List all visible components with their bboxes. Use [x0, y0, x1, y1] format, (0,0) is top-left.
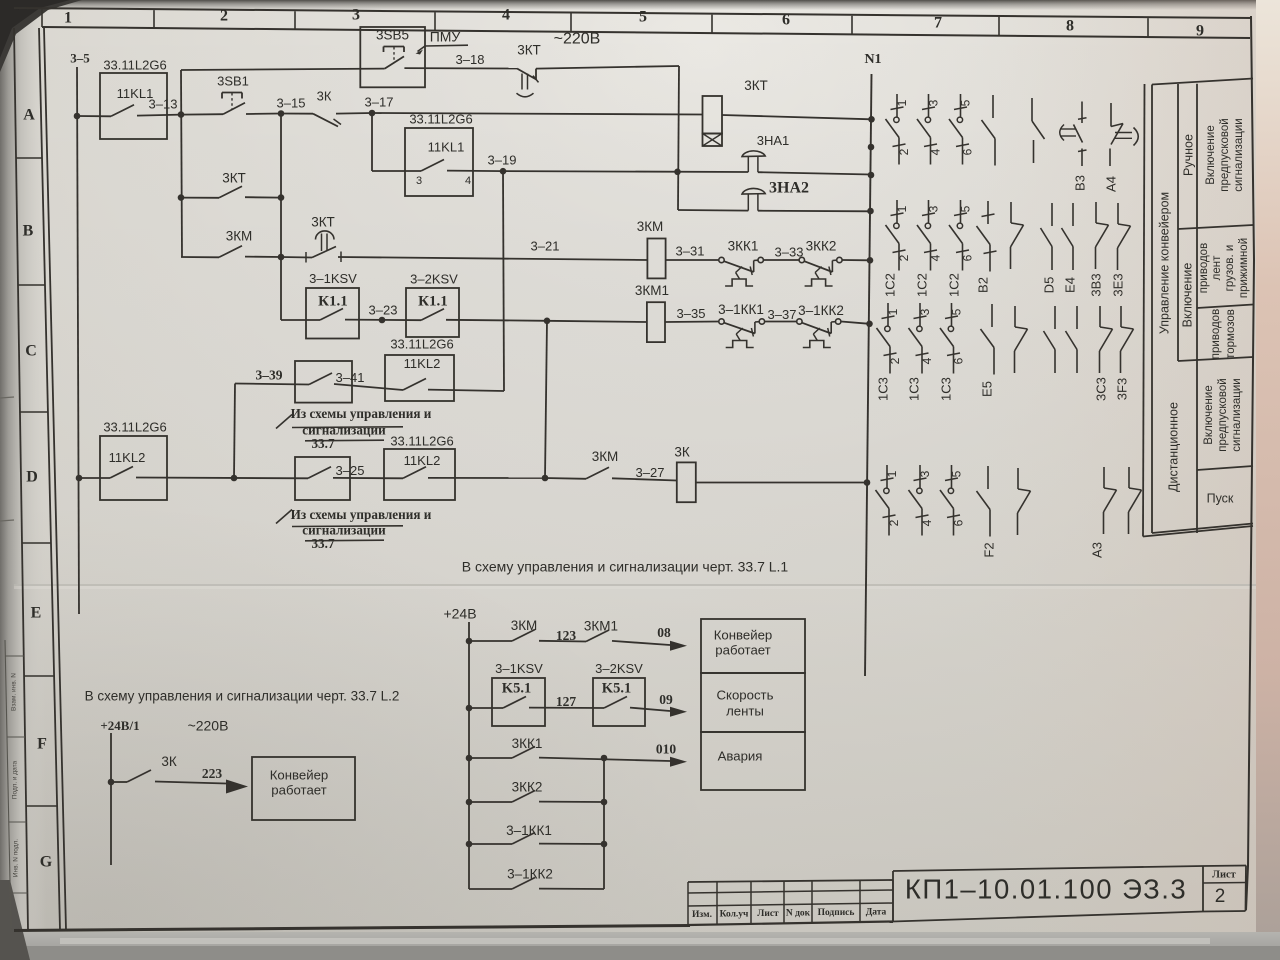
svg-text:B2: B2 [975, 277, 990, 293]
svg-text:4: 4 [929, 254, 943, 261]
svg-text:Управление конвейером: Управление конвейером [1157, 192, 1171, 334]
svg-text:3–2KSV: 3–2KSV [595, 661, 643, 676]
svg-text:6: 6 [952, 519, 966, 526]
svg-text:Инв. N подл.: Инв. N подл. [13, 839, 20, 877]
svg-text:3–27: 3–27 [636, 465, 665, 480]
svg-text:КП1–10.01.100 ЭЗ.3: КП1–10.01.100 ЭЗ.3 [905, 873, 1187, 904]
svg-text:6: 6 [782, 12, 790, 29]
svg-text:3–2KSV: 3–2KSV [410, 271, 458, 286]
svg-text:Изм.: Изм. [692, 910, 712, 920]
svg-text:Пуск: Пуск [1207, 491, 1234, 505]
svg-text:127: 127 [556, 694, 577, 709]
svg-text:1C3: 1C3 [875, 377, 890, 401]
svg-text:3КК2: 3КК2 [512, 780, 543, 795]
svg-text:3КМ1: 3КМ1 [635, 283, 669, 298]
svg-text:3: 3 [918, 470, 932, 477]
svg-text:3–19: 3–19 [488, 152, 517, 167]
svg-text:5: 5 [950, 308, 964, 315]
svg-text:Из схемы управления и: Из схемы управления и [291, 406, 432, 421]
svg-text:B: B [23, 223, 34, 240]
svg-text:Включение: Включение [1180, 263, 1194, 328]
svg-text:08: 08 [657, 625, 671, 640]
svg-text:3КК2: 3КК2 [806, 239, 837, 254]
svg-text:A4: A4 [1103, 176, 1118, 192]
svg-text:Включение: Включение [1203, 385, 1215, 444]
svg-text:K5.1: K5.1 [602, 680, 631, 696]
svg-text:D: D [26, 469, 38, 486]
svg-text:5: 5 [959, 99, 973, 106]
svg-text:09: 09 [659, 692, 673, 707]
svg-text:Конвейер: Конвейер [714, 627, 773, 642]
svg-text:+24В/1: +24В/1 [100, 718, 139, 733]
svg-text:33.11L2G6: 33.11L2G6 [409, 111, 472, 126]
svg-text:работает: работает [271, 782, 326, 797]
svg-text:11KL2: 11KL2 [404, 453, 441, 468]
svg-text:3F3: 3F3 [1114, 378, 1129, 400]
svg-text:2: 2 [220, 8, 228, 25]
svg-text:1: 1 [886, 308, 900, 315]
svg-text:3КМ: 3КМ [592, 449, 619, 464]
svg-text:E5: E5 [979, 381, 994, 397]
svg-text:3–25: 3–25 [336, 463, 365, 478]
svg-text:В схему управления и сигна: В схему управления и сигнализации черт. … [462, 559, 789, 575]
svg-text:4: 4 [929, 148, 943, 155]
svg-text:3–1КК1: 3–1КК1 [506, 823, 552, 838]
svg-text:предпусковой: предпусковой [1217, 378, 1229, 451]
svg-text:3B3: 3B3 [1088, 273, 1103, 296]
svg-text:11KL1: 11KL1 [428, 139, 465, 154]
svg-text:3–35: 3–35 [677, 306, 706, 321]
svg-text:Подп. и дата: Подп. и дата [12, 760, 19, 799]
svg-text:~220В: ~220В [554, 31, 601, 48]
svg-text:Дистанционное: Дистанционное [1166, 402, 1180, 492]
svg-text:3К: 3К [161, 754, 177, 769]
svg-text:3: 3 [927, 99, 941, 106]
svg-text:3КТ: 3КТ [311, 215, 335, 230]
svg-text:~220В: ~220В [188, 718, 229, 734]
svg-text:3–1КК1: 3–1КК1 [718, 302, 764, 317]
svg-text:E: E [31, 605, 42, 622]
svg-text:33.11L2G6: 33.11L2G6 [103, 419, 166, 434]
svg-text:3–18: 3–18 [456, 52, 485, 67]
svg-text:A3: A3 [1089, 542, 1104, 558]
svg-text:7: 7 [934, 15, 942, 32]
svg-text:2: 2 [897, 254, 911, 261]
svg-text:F: F [37, 736, 47, 753]
svg-text:3КМ: 3КМ [637, 219, 664, 234]
svg-text:Из схемы управления и: Из схемы управления и [291, 507, 432, 522]
svg-text:Лист: Лист [757, 909, 779, 919]
svg-text:3C3: 3C3 [1093, 377, 1108, 401]
svg-text:3КТ: 3КТ [222, 171, 246, 186]
svg-text:3–1KSV: 3–1KSV [309, 271, 357, 286]
svg-text:2: 2 [887, 519, 901, 526]
svg-text:5: 5 [950, 470, 964, 477]
svg-text:4: 4 [465, 175, 471, 187]
svg-text:3–1KSV: 3–1KSV [495, 661, 543, 676]
svg-text:Скорость: Скорость [717, 687, 774, 702]
svg-text:Включение: Включение [1205, 125, 1217, 184]
svg-text:2: 2 [897, 148, 911, 155]
svg-text:3SB5: 3SB5 [376, 28, 409, 43]
svg-text:8: 8 [1066, 18, 1074, 35]
svg-text:3–41: 3–41 [336, 370, 365, 385]
svg-text:6: 6 [961, 148, 975, 155]
svg-text:3–13: 3–13 [149, 96, 178, 111]
svg-text:Взам. инв. N: Взам. инв. N [11, 673, 18, 711]
svg-text:1C3: 1C3 [938, 377, 953, 401]
svg-text:3–31: 3–31 [676, 243, 705, 258]
svg-text:4: 4 [920, 357, 934, 364]
svg-text:3КТ: 3КТ [744, 78, 768, 93]
svg-text:010: 010 [656, 742, 677, 757]
svg-text:A: A [23, 107, 35, 124]
svg-text:6: 6 [952, 357, 966, 364]
svg-text:ленты: ленты [726, 703, 764, 718]
svg-text:3–37: 3–37 [768, 307, 797, 322]
svg-text:223: 223 [202, 766, 223, 781]
svg-text:Ручное: Ручное [1181, 134, 1195, 176]
svg-text:В схему управления и сигна: В схему управления и сигнализации черт. … [85, 689, 400, 704]
svg-text:лент: лент [1211, 255, 1223, 280]
svg-text:1: 1 [895, 205, 909, 212]
svg-text:1C2: 1C2 [914, 273, 929, 297]
svg-text:3КТ: 3КТ [517, 43, 541, 58]
svg-text:Подпись: Подпись [818, 908, 855, 918]
svg-text:33.11L2G6: 33.11L2G6 [390, 336, 453, 351]
svg-text:+24В: +24В [443, 606, 476, 622]
svg-text:C: C [25, 343, 37, 360]
svg-text:N1: N1 [864, 52, 881, 67]
svg-text:3SB1: 3SB1 [217, 73, 249, 88]
svg-text:3–17: 3–17 [365, 94, 394, 109]
svg-text:3–15: 3–15 [277, 95, 306, 110]
svg-text:4: 4 [920, 519, 934, 526]
svg-text:B3: B3 [1072, 175, 1087, 191]
svg-text:33.7: 33.7 [311, 436, 334, 451]
svg-text:5: 5 [639, 9, 647, 26]
svg-text:Дата: Дата [866, 907, 887, 917]
svg-text:3: 3 [927, 205, 941, 212]
svg-text:Кол.уч: Кол.уч [720, 910, 749, 920]
svg-text:1C2: 1C2 [882, 273, 897, 297]
svg-text:9: 9 [1196, 23, 1204, 40]
svg-text:11KL2: 11KL2 [109, 450, 146, 465]
svg-text:3КМ: 3КМ [511, 618, 538, 633]
svg-text:3КМ1: 3КМ1 [584, 619, 618, 634]
svg-text:3E3: 3E3 [1110, 273, 1125, 296]
svg-text:Авария: Авария [718, 748, 763, 763]
svg-text:33.11L2G6: 33.11L2G6 [390, 433, 453, 448]
svg-text:123: 123 [556, 628, 577, 643]
svg-text:K5.1: K5.1 [502, 680, 531, 696]
svg-text:3: 3 [918, 308, 932, 315]
svg-text:1: 1 [64, 10, 72, 27]
svg-text:3–39: 3–39 [256, 368, 283, 383]
svg-text:F2: F2 [981, 542, 996, 557]
svg-text:33.11L2G6: 33.11L2G6 [103, 57, 166, 72]
svg-text:3–21: 3–21 [531, 238, 560, 253]
svg-text:1: 1 [895, 99, 909, 106]
svg-text:работает: работает [715, 642, 770, 657]
svg-text:33.7: 33.7 [311, 536, 334, 551]
svg-text:К1.1: К1.1 [318, 293, 348, 309]
svg-text:приводов: приводов [1210, 309, 1222, 359]
svg-text:3–1КК2: 3–1КК2 [798, 303, 844, 318]
svg-text:тормозов: тормозов [1225, 309, 1237, 359]
svg-text:3: 3 [352, 7, 360, 24]
svg-text:предпусковой: предпусковой [1219, 118, 1231, 191]
svg-text:2: 2 [888, 357, 902, 364]
svg-text:сигнализации: сигнализации [1233, 118, 1245, 191]
svg-text:3НА2: 3НА2 [769, 180, 809, 197]
svg-text:3КК1: 3КК1 [512, 736, 543, 751]
svg-text:2: 2 [1215, 886, 1226, 907]
svg-text:5: 5 [959, 205, 973, 212]
svg-text:11KL2: 11KL2 [404, 356, 441, 371]
svg-text:D5: D5 [1041, 277, 1056, 294]
svg-text:прижимной: прижимной [1238, 238, 1250, 298]
svg-text:1C3: 1C3 [906, 377, 921, 401]
svg-text:Лист: Лист [1212, 869, 1237, 880]
svg-text:6: 6 [961, 254, 975, 261]
svg-text:1: 1 [885, 470, 899, 477]
svg-text:1C2: 1C2 [946, 273, 961, 297]
svg-text:3: 3 [416, 175, 422, 187]
svg-text:3–23: 3–23 [369, 302, 398, 317]
svg-text:3КК1: 3КК1 [728, 239, 759, 254]
svg-text:приводов: приводов [1198, 243, 1210, 293]
svg-text:3НА1: 3НА1 [757, 133, 790, 148]
svg-text:G: G [40, 854, 53, 871]
svg-text:E4: E4 [1062, 277, 1077, 293]
svg-text:3–33: 3–33 [775, 244, 804, 259]
svg-text:сигнализации: сигнализации [1231, 378, 1243, 451]
svg-text:3К: 3К [674, 445, 690, 460]
svg-text:3К: 3К [317, 88, 332, 103]
svg-text:3–1КК2: 3–1КК2 [507, 867, 553, 882]
svg-text:Конвейер: Конвейер [270, 767, 329, 782]
svg-text:ПМУ: ПМУ [430, 29, 461, 45]
svg-text:К1.1: К1.1 [418, 293, 448, 309]
svg-text:N док: N док [786, 909, 811, 919]
svg-text:грузов. и: грузов. и [1224, 245, 1236, 292]
svg-text:3–5: 3–5 [70, 50, 90, 65]
svg-text:4: 4 [502, 7, 510, 24]
svg-text:3КМ: 3КМ [226, 229, 253, 244]
